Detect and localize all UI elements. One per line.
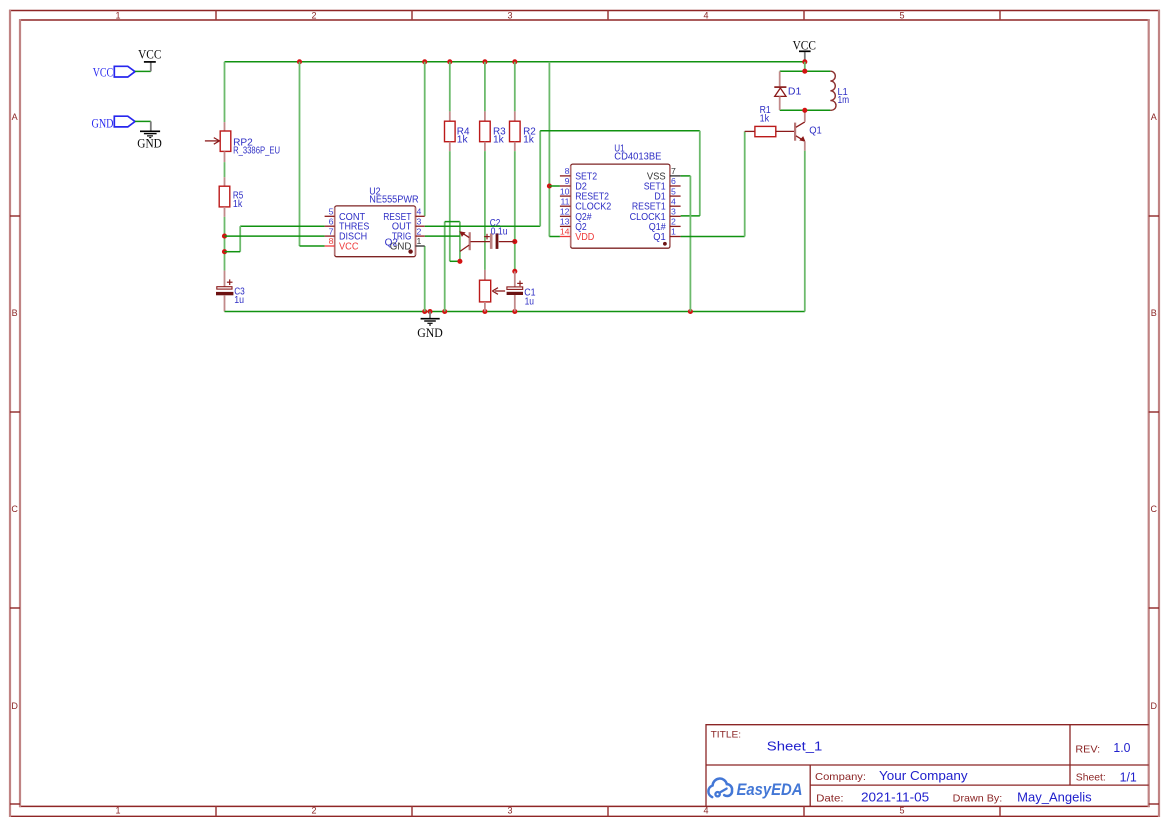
svg-text:1k: 1k <box>457 134 468 145</box>
svg-text:4: 4 <box>703 806 708 816</box>
svg-text:Date:: Date: <box>816 793 844 805</box>
svg-text:3: 3 <box>671 207 676 217</box>
svg-text:1/1: 1/1 <box>1120 769 1137 784</box>
svg-text:5: 5 <box>899 10 904 20</box>
svg-text:2: 2 <box>671 217 676 227</box>
svg-text:12: 12 <box>560 207 570 217</box>
svg-text:8: 8 <box>565 166 570 176</box>
svg-text:1u: 1u <box>525 296 534 307</box>
svg-text:1: 1 <box>115 806 120 816</box>
svg-text:Q2: Q2 <box>385 237 398 248</box>
svg-text:13: 13 <box>560 217 570 227</box>
svg-text:1k: 1k <box>523 134 534 145</box>
svg-text:Q1: Q1 <box>809 126 822 137</box>
svg-text:C: C <box>1150 504 1157 514</box>
svg-text:EasyEDA: EasyEDA <box>737 781 803 799</box>
svg-text:1k: 1k <box>760 114 770 125</box>
svg-text:VDD: VDD <box>575 232 594 243</box>
svg-text:D: D <box>11 701 18 711</box>
svg-text:4: 4 <box>703 10 708 20</box>
svg-text:B: B <box>1151 308 1157 318</box>
svg-text:3: 3 <box>507 10 512 20</box>
svg-text:1k: 1k <box>233 199 243 210</box>
svg-text:May_Angelis: May_Angelis <box>1017 789 1091 804</box>
svg-text:Company:: Company: <box>815 771 866 783</box>
svg-text:GND: GND <box>137 137 162 151</box>
svg-text:B: B <box>12 308 18 318</box>
svg-text:GND: GND <box>417 326 443 340</box>
svg-text:REV:: REV: <box>1075 743 1100 755</box>
svg-text:Q1: Q1 <box>653 232 666 243</box>
svg-text:1: 1 <box>671 227 676 237</box>
svg-text:Drawn By:: Drawn By: <box>953 793 1003 805</box>
svg-text:6: 6 <box>329 216 334 226</box>
svg-text:VCC: VCC <box>339 242 359 253</box>
svg-text:9: 9 <box>565 176 570 186</box>
svg-text:D: D <box>1150 701 1157 711</box>
svg-text:6: 6 <box>671 176 676 186</box>
svg-text:14: 14 <box>560 227 570 237</box>
svg-text:CD4013BE: CD4013BE <box>614 152 662 163</box>
svg-text:3: 3 <box>507 806 512 816</box>
svg-text:1m: 1m <box>838 95 850 106</box>
svg-text:5: 5 <box>329 207 334 217</box>
svg-text:R_3386P_EU: R_3386P_EU <box>233 146 280 157</box>
svg-text:A: A <box>12 112 18 122</box>
svg-text:8: 8 <box>329 236 334 246</box>
svg-text:0.1u: 0.1u <box>491 227 508 238</box>
svg-text:C: C <box>11 504 18 514</box>
svg-text:1u: 1u <box>234 295 244 306</box>
svg-text:10: 10 <box>560 186 570 196</box>
svg-text:1: 1 <box>115 10 120 20</box>
svg-text:2: 2 <box>417 226 422 236</box>
svg-text:1.0: 1.0 <box>1113 740 1130 755</box>
svg-text:D1: D1 <box>788 86 801 97</box>
svg-text:2: 2 <box>311 10 316 20</box>
svg-text:1: 1 <box>417 236 422 246</box>
svg-text:NE555PWR: NE555PWR <box>369 195 418 206</box>
svg-text:7: 7 <box>329 226 334 236</box>
svg-text:VCC: VCC <box>138 48 161 62</box>
svg-text:4: 4 <box>417 207 422 217</box>
svg-text:2: 2 <box>311 806 316 816</box>
svg-text:7: 7 <box>671 166 676 176</box>
svg-text:Sheet_1: Sheet_1 <box>767 738 823 753</box>
svg-text:GND: GND <box>92 115 114 130</box>
svg-text:5: 5 <box>671 186 676 196</box>
svg-text:11: 11 <box>560 196 569 206</box>
svg-text:VCC: VCC <box>793 38 816 52</box>
svg-text:Your Company: Your Company <box>879 768 968 783</box>
svg-text:4: 4 <box>671 196 676 206</box>
svg-text:Sheet:: Sheet: <box>1076 771 1106 783</box>
svg-text:A: A <box>1151 112 1157 122</box>
svg-text:5: 5 <box>899 806 904 816</box>
svg-text:TITLE:: TITLE: <box>711 730 742 741</box>
svg-text:3: 3 <box>417 216 422 226</box>
svg-text:VCC: VCC <box>93 65 114 80</box>
svg-text:1k: 1k <box>493 134 504 145</box>
svg-text:2021-11-05: 2021-11-05 <box>861 790 929 805</box>
